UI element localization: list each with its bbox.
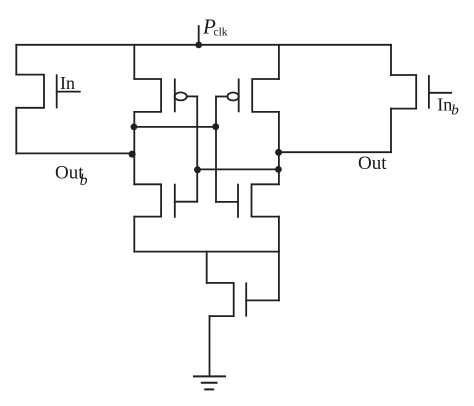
svg-text:clk: clk	[214, 27, 228, 39]
svg-text:In: In	[437, 94, 452, 114]
wire tail gate to common rail	[278, 252, 280, 301]
wire VDD rail to M_inb drain	[390, 45, 392, 75]
label Out_b	[55, 162, 88, 189]
wire right internal rail (P2 drain to N2 drain)	[278, 112, 280, 184]
transistor N1 (left NMOS of latch)	[134, 184, 197, 217]
transistor N3 (tail transistor)	[207, 283, 279, 316]
transistor N2 (right NMOS of latch)	[216, 184, 279, 217]
wire cross-couple line 1 (left drain to P2/N2 gates)	[134, 126, 216, 128]
junction dot P_clk node	[195, 42, 202, 49]
transistor M_inb (right input, gate In_b)	[391, 75, 451, 109]
wire Out	[279, 151, 391, 153]
wire Out_b	[16, 152, 134, 154]
wire vertical A (P1 gate / N1 gate to node Out)	[196, 96, 198, 201]
wire common source bottom rail	[134, 251, 279, 253]
svg-text:Out: Out	[358, 153, 387, 174]
label P_clk	[202, 15, 228, 39]
junction dot right rail cross line	[275, 166, 282, 173]
svg-text:b: b	[80, 172, 88, 189]
junction dot left rail cross line	[131, 124, 138, 131]
junction dot Out node	[275, 149, 282, 156]
ground	[194, 376, 225, 389]
wire N2 source to common rail	[278, 217, 280, 252]
wire cross-couple line 2 (right drain to P1/N1 gates)	[197, 168, 279, 170]
wire VDD rail to right PMOS source	[278, 45, 280, 79]
transistor P2 (right PMOS of latch)	[227, 79, 278, 112]
svg-text:b: b	[451, 102, 459, 118]
wire VDD rail to left PMOS source	[133, 45, 135, 79]
wire M_in source to Out_b node	[15, 108, 17, 154]
label In_b	[437, 94, 459, 118]
transistor M_in (left input, gate In)	[16, 75, 80, 108]
wire tail drain	[206, 252, 208, 283]
wire VDD top rail	[16, 44, 391, 46]
wire P1 gate bubble to node B vertical	[187, 95, 197, 97]
wire tail source to ground	[209, 316, 211, 376]
svg-text:In: In	[60, 73, 75, 93]
wire vertical B (P2 gate / N2 gate to node Out_b)	[215, 97, 217, 202]
wire M_inb source to Out node	[390, 109, 392, 153]
transistor P1 (left PMOS of latch)	[134, 79, 186, 112]
wire P_clk stub	[198, 26, 200, 45]
junction dot on vertical B	[212, 123, 219, 130]
wire VDD rail to M_in drain	[15, 45, 17, 75]
wire P2 gate bubble to node A vertical	[216, 96, 227, 98]
wire N1 source to common rail	[133, 217, 135, 252]
junction dot on vertical A	[194, 166, 201, 173]
wire left internal rail (P1 drain to N1 drain)	[133, 112, 135, 184]
junction dot Out_b node	[129, 151, 136, 158]
